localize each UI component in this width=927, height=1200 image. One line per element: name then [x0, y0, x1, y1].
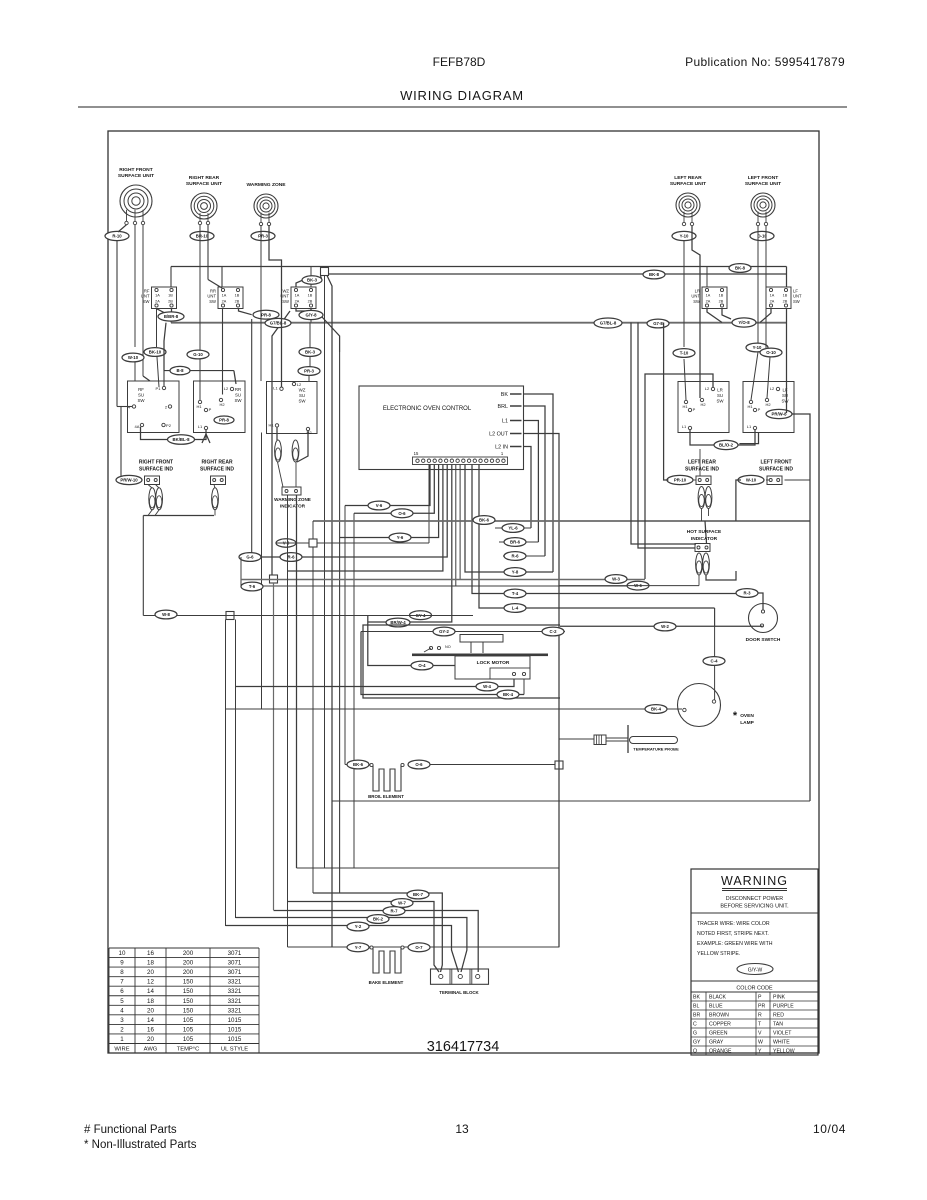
switch LF SU SW	[743, 382, 794, 433]
bus G/BL horizontal	[171, 322, 787, 324]
lamp WZ indicator	[275, 440, 282, 462]
connector GY-2	[433, 627, 455, 636]
wire RF unit sw top feed	[170, 267, 172, 288]
wire RR unit sw top feed	[221, 267, 223, 288]
wire EOC T15 right	[479, 465, 715, 609]
connector BK/BL-8	[168, 435, 195, 445]
connector BK-7	[407, 890, 429, 899]
svg-text:BK-7: BK-7	[413, 892, 424, 897]
indicator LEFT REAR SURFACE IND	[667, 460, 719, 485]
svg-text:8: 8	[120, 969, 124, 976]
bus y901	[288, 902, 440, 973]
wire node A diagonal branch	[327, 276, 332, 948]
svg-text:LAMP: LAMP	[740, 720, 754, 726]
bus y585 HSI	[559, 585, 699, 587]
title underline	[78, 106, 847, 108]
svg-text:14: 14	[147, 988, 154, 995]
wire H2 drop x638 to HSI	[638, 323, 695, 549]
wire EOC L2IN out	[524, 447, 532, 529]
svg-text:LEFT FRONT: LEFT FRONT	[748, 175, 778, 181]
wire BL/O to LF L1	[738, 430, 755, 445]
svg-text:PR-3: PR-3	[258, 234, 268, 239]
svg-text:PR/W-10: PR/W-10	[120, 478, 138, 483]
svg-text:20: 20	[147, 1007, 154, 1014]
connector BK-8 far right	[729, 264, 751, 273]
svg-text:2B: 2B	[719, 300, 724, 304]
connector T-10	[673, 349, 695, 358]
connector O-6 broil	[408, 760, 430, 769]
svg-text:SURFACE UNIT: SURFACE UNIT	[745, 181, 781, 187]
wire EOC T13 right	[465, 465, 553, 573]
svg-text:BEFORE SERVICING UNIT.: BEFORE SERVICING UNIT.	[720, 904, 788, 910]
svg-text:C: C	[693, 1022, 697, 1028]
wire EOC T1 left	[345, 465, 430, 506]
svg-text:RIGHT REAR: RIGHT REAR	[201, 460, 233, 466]
wire RF lead left	[118, 225, 127, 232]
svg-text:10/04: 10/04	[813, 1122, 846, 1136]
svg-text:B-8: B-8	[177, 368, 185, 373]
bus y543 node B	[317, 542, 429, 544]
svg-text:BLUE: BLUE	[709, 1004, 723, 1010]
svg-text:BROIL ELEMENT: BROIL ELEMENT	[368, 794, 404, 799]
bus y893	[313, 893, 442, 972]
svg-text:WIRING DIAGRAM: WIRING DIAGRAM	[400, 88, 524, 103]
svg-text:H2: H2	[765, 402, 771, 407]
wire BK/BL-8 to RR L1	[195, 430, 207, 440]
svg-text:L2: L2	[224, 386, 229, 391]
svg-text:BR-6: BR-6	[510, 540, 521, 545]
svg-text:G: G	[693, 1031, 697, 1037]
svg-text:H1: H1	[196, 404, 202, 409]
svg-text:T-6: T-6	[249, 584, 256, 589]
wire HSI lamp right down	[706, 571, 736, 580]
svg-text:C-4: C-4	[711, 659, 719, 664]
connector W-7	[391, 899, 413, 908]
svg-text:GRAY: GRAY	[709, 1040, 724, 1046]
svg-text:R: R	[758, 1013, 762, 1019]
electronic oven control U1	[359, 386, 524, 470]
svg-text:TEMP°C: TEMP°C	[177, 1047, 200, 1053]
svg-text:Y-7: Y-7	[355, 945, 362, 950]
svg-text:BK-10: BK-10	[149, 350, 162, 355]
svg-text:PR-8: PR-8	[219, 418, 229, 423]
svg-text:SW: SW	[693, 299, 700, 304]
svg-text:1B: 1B	[719, 294, 724, 298]
connector B-8	[170, 366, 190, 374]
svg-text:SURFACE IND: SURFACE IND	[200, 467, 234, 473]
surface unit LEFT REAR	[670, 175, 706, 226]
svg-text:SURFACE UNIT: SURFACE UNIT	[118, 173, 154, 179]
svg-text:SW: SW	[234, 398, 242, 403]
bus y926	[226, 926, 459, 973]
svg-text:RIGHT FRONT: RIGHT FRONT	[119, 167, 152, 173]
svg-text:PURPLE: PURPLE	[773, 1004, 794, 1010]
wire LR lamps to bus	[701, 509, 703, 522]
lamp LR indicator	[698, 487, 705, 509]
svg-text:L2: L2	[705, 386, 710, 391]
svg-text:1A: 1A	[155, 294, 160, 298]
connector BK-10	[144, 348, 166, 357]
svg-text:BROWN: BROWN	[709, 1013, 729, 1019]
wire EOC T2 left	[354, 465, 434, 514]
svg-text:OVEN: OVEN	[740, 713, 754, 719]
svg-text:W-4: W-4	[483, 684, 491, 689]
svg-text:O-4: O-4	[418, 663, 426, 668]
svg-text:T-10: T-10	[680, 351, 689, 356]
svg-text:Y-10: Y-10	[753, 345, 762, 350]
wire RF SU SW bottom link	[141, 427, 169, 440]
wire broil right to node E	[430, 764, 555, 766]
svg-text:200: 200	[183, 969, 194, 976]
wire lock motor BK-4 lead	[523, 679, 525, 695]
svg-text:G/Y-8: G/Y-8	[306, 313, 318, 318]
svg-text:COLOR CODE: COLOR CODE	[736, 986, 773, 992]
svg-text:SURFACE UNIT: SURFACE UNIT	[670, 181, 706, 187]
connector BR-10	[190, 231, 214, 240]
svg-text:3071: 3071	[228, 960, 242, 967]
svg-text:G-6: G-6	[246, 555, 254, 560]
lamp hot surface indicator	[696, 553, 703, 575]
svg-text:3071: 3071	[228, 950, 242, 957]
oven lamp label	[733, 710, 755, 726]
wire EOC T6 left	[368, 465, 452, 623]
svg-text:L2: L2	[297, 382, 302, 387]
connector O-10 b	[760, 348, 782, 357]
svg-text:2A: 2A	[706, 300, 711, 304]
wire EOC L2OUT out	[524, 434, 560, 948]
broil element	[368, 763, 404, 799]
svg-text:105: 105	[183, 1017, 194, 1024]
svg-text:SURFACE IND: SURFACE IND	[685, 467, 719, 473]
bus y918	[236, 918, 467, 973]
wire node C down	[273, 583, 275, 910]
connector G-10	[187, 350, 209, 359]
wire lock motor feed	[368, 616, 455, 666]
wire WZ H2 to lamp	[297, 431, 308, 462]
svg-text:150: 150	[183, 988, 194, 995]
svg-text:W-2: W-2	[661, 624, 669, 629]
svg-text:Y-8: Y-8	[512, 570, 519, 575]
svg-text:EXAMPLE: GREEN WIRE WITH: EXAMPLE: GREEN WIRE WITH	[697, 941, 773, 947]
svg-text:G-10: G-10	[193, 352, 203, 357]
svg-text:WIRE: WIRE	[114, 1047, 129, 1053]
wire LF unit sw bottom	[760, 309, 771, 323]
connector BK-8 right	[643, 270, 665, 279]
svg-text:FEFB78D: FEFB78D	[433, 55, 486, 69]
connector C-4	[703, 657, 725, 666]
oven lamp DS1	[678, 684, 721, 727]
wire LF lead right	[765, 226, 767, 349]
bake element	[369, 946, 404, 985]
connector R-10	[105, 231, 129, 240]
wire left ind vertical	[142, 516, 144, 616]
svg-text:SW: SW	[143, 299, 150, 304]
wire node B down	[312, 547, 314, 893]
connector W-4 lock	[476, 682, 498, 691]
svg-text:R-6: R-6	[288, 555, 296, 560]
svg-text:# Functional Parts: # Functional Parts	[84, 1124, 177, 1136]
wire B/BR-8 to bus	[170, 321, 172, 323]
svg-text:W-3: W-3	[612, 577, 620, 582]
svg-text:6: 6	[120, 988, 124, 995]
svg-text:Y: Y	[758, 1049, 762, 1055]
bus y947 bottom loop	[288, 946, 560, 948]
indicator LEFT FRONT SURFACE IND	[738, 460, 793, 485]
svg-text:SU: SU	[782, 393, 788, 398]
wire RF unit sw bottom fork	[157, 309, 172, 313]
connector L-4	[504, 604, 526, 613]
svg-text:BK-8: BK-8	[735, 266, 746, 271]
connector BK-2	[367, 915, 389, 924]
svg-text:G/Y-W: G/Y-W	[748, 967, 763, 973]
wire WZ box left drop	[261, 433, 263, 710]
bus y708 oven lamp feed	[226, 708, 683, 710]
svg-text:3: 3	[120, 1017, 124, 1024]
svg-text:O-7: O-7	[415, 945, 423, 950]
svg-text:YELLOW: YELLOW	[773, 1049, 795, 1055]
svg-text:2B: 2B	[783, 300, 788, 304]
svg-text:SW: SW	[781, 398, 789, 403]
connector BK-6 broil	[347, 760, 369, 769]
svg-text:*: *	[733, 710, 738, 722]
svg-text:W-10: W-10	[746, 478, 757, 483]
svg-text:R-3: R-3	[744, 591, 752, 596]
svg-text:NOTED FIRST, STRIPE NEXT.: NOTED FIRST, STRIPE NEXT.	[697, 931, 769, 937]
wire R-6 stub	[503, 555, 545, 557]
wire EOC T4 left	[288, 465, 443, 572]
svg-text:WZ: WZ	[299, 388, 306, 393]
svg-text:18: 18	[147, 960, 154, 967]
switch WZ SU SW	[267, 382, 318, 436]
diagram border	[108, 131, 819, 1053]
svg-text:316417734: 316417734	[427, 1039, 500, 1055]
wire WZ H1 to lamp	[276, 427, 278, 440]
svg-text:L1: L1	[502, 418, 508, 424]
wire WZ top-left to node A	[296, 280, 303, 287]
svg-text:G7-8: G7-8	[653, 321, 663, 326]
wire broil left	[345, 764, 347, 766]
connector PR/W-8 at LF SU SW	[766, 409, 792, 418]
wire 4 to RF indicator	[120, 407, 122, 477]
wire EOC T5 left	[241, 465, 447, 558]
svg-text:P2: P2	[166, 423, 172, 428]
connector O-7 bake	[408, 943, 430, 952]
wire R-3 to door switch	[758, 593, 763, 610]
svg-text:L1: L1	[747, 424, 752, 429]
wire G/Y oval down	[310, 320, 312, 323]
svg-text:O-10: O-10	[766, 350, 776, 355]
svg-text:TEMPERATURE PROBE: TEMPERATURE PROBE	[633, 747, 679, 752]
wire door return drop	[714, 608, 716, 626]
svg-text:TAN: TAN	[773, 1022, 783, 1028]
surface unit RIGHT FRONT	[118, 167, 154, 225]
svg-text:1015: 1015	[228, 1036, 242, 1043]
svg-text:Y-10: Y-10	[680, 234, 689, 239]
svg-text:2B: 2B	[235, 300, 240, 304]
svg-text:LEFT REAR: LEFT REAR	[688, 460, 716, 466]
svg-text:BK: BK	[693, 995, 700, 1001]
wire LR H1 feed	[683, 241, 685, 348]
svg-text:L1: L1	[273, 386, 278, 391]
wire LR lead right	[692, 226, 700, 399]
wire PR/W-8 to border riser	[793, 414, 811, 801]
junction node D	[226, 612, 234, 620]
wire temp probe feed	[559, 738, 594, 740]
svg-text:SW: SW	[298, 398, 306, 403]
svg-text:P: P	[693, 407, 696, 412]
svg-text:200: 200	[183, 950, 194, 957]
svg-text:GY-2: GY-2	[439, 629, 449, 634]
connector Y-10	[672, 231, 696, 240]
EOC terminal strip	[413, 457, 508, 465]
svg-text:P1: P1	[156, 386, 162, 391]
svg-text:INDICATOR: INDICATOR	[691, 536, 718, 542]
svg-text:BLACK: BLACK	[709, 995, 727, 1001]
svg-text:Y/O-8: Y/O-8	[738, 320, 750, 325]
svg-text:3321: 3321	[228, 988, 242, 995]
wire EOC T8 down	[459, 465, 461, 580]
wire EOC BRL out	[524, 406, 546, 556]
wire G/Y-8 diag to x340	[322, 317, 340, 352]
svg-text:H1: H1	[747, 404, 753, 409]
svg-text:BK-2: BK-2	[373, 917, 384, 922]
svg-text:PR/W-8: PR/W-8	[772, 412, 788, 417]
junction node C	[270, 575, 278, 583]
connector V-8	[276, 539, 296, 547]
connector GY-4	[410, 611, 432, 620]
connector R-6 left	[280, 553, 302, 562]
svg-text:1: 1	[501, 451, 504, 456]
svg-text:COPPER: COPPER	[709, 1022, 731, 1028]
svg-text:C-2: C-2	[550, 629, 558, 634]
wire LR unit sw top feed	[706, 267, 708, 288]
wire RR lead right	[207, 225, 209, 280]
svg-text:DISCONNECT POWER: DISCONNECT POWER	[726, 896, 784, 902]
svg-text:L2: L2	[770, 386, 775, 391]
svg-text:BR/W-4: BR/W-4	[390, 620, 406, 625]
svg-text:BK-4: BK-4	[503, 692, 514, 697]
svg-text:H2: H2	[306, 430, 312, 435]
wire RR unit sw bottom to H2	[222, 309, 224, 395]
svg-text:16: 16	[147, 1026, 154, 1033]
svg-text:LR: LR	[717, 388, 723, 393]
svg-text:1015: 1015	[228, 1017, 242, 1024]
svg-text:14: 14	[147, 1017, 154, 1024]
svg-text:AWG: AWG	[144, 1047, 158, 1053]
lamp RR indicator	[212, 488, 219, 510]
svg-text:L1: L1	[682, 424, 687, 429]
svg-text:2A: 2A	[295, 300, 300, 304]
connector W-8	[155, 610, 177, 619]
svg-text:PINK: PINK	[773, 995, 786, 1001]
svg-text:1: 1	[120, 1036, 124, 1043]
svg-text:SW: SW	[282, 299, 289, 304]
wire RR unit sw bottom fork	[239, 309, 252, 315]
svg-text:DOOR SWITCH: DOOR SWITCH	[746, 637, 781, 643]
wire RF lead right	[142, 225, 144, 376]
wire PR-8 drop to G-6	[251, 319, 253, 553]
svg-text:GREEN: GREEN	[709, 1031, 728, 1037]
svg-text:P: P	[758, 995, 762, 1001]
switch RF UNIT SW	[141, 287, 177, 309]
svg-text:INDICATOR: INDICATOR	[280, 504, 306, 509]
svg-text:W-8: W-8	[162, 612, 170, 617]
switch LR SU SW	[678, 382, 729, 433]
lock assembly boundary	[363, 625, 560, 698]
bus grey y520	[313, 520, 810, 522]
connector R-3	[736, 589, 758, 598]
wire LF unit sw top feed	[786, 267, 788, 288]
warming zone indicator	[274, 487, 311, 509]
svg-text:RF: RF	[138, 387, 144, 392]
svg-text:2B: 2B	[168, 300, 173, 304]
connector G/Y-8	[299, 310, 323, 319]
wire y579 riser x645	[645, 374, 713, 579]
svg-text:V: V	[758, 1031, 762, 1037]
bus y910	[274, 911, 479, 973]
wire RF unit sw lower-left lead	[156, 309, 158, 347]
svg-text:Y-6: Y-6	[397, 535, 404, 540]
connector B/BR-8	[158, 312, 184, 321]
svg-text:13: 13	[455, 1122, 469, 1136]
wire RR ind lamp leads	[214, 485, 215, 489]
svg-text:GY: GY	[693, 1040, 701, 1046]
wire H2 drop x663 to LR ind	[664, 323, 669, 481]
svg-text:SW: SW	[793, 299, 800, 304]
svg-text:SW: SW	[716, 398, 724, 403]
lock motor assembly	[412, 635, 548, 680]
svg-text:BK-6: BK-6	[479, 518, 490, 523]
connector Y-7 bake	[347, 943, 369, 952]
svg-text:RR: RR	[235, 387, 241, 392]
svg-text:G7/BL-8: G7/BL-8	[270, 321, 287, 326]
svg-text:2A: 2A	[770, 300, 775, 304]
svg-text:WARMING ZONE: WARMING ZONE	[274, 497, 311, 502]
indicator RIGHT REAR SURFACE IND	[200, 460, 234, 485]
svg-text:1B: 1B	[308, 294, 313, 298]
wire WZ lead right	[269, 225, 282, 387]
wire EOC T7 down	[455, 465, 457, 587]
svg-text:1A: 1A	[295, 294, 300, 298]
svg-text:4: 4	[120, 1007, 124, 1014]
svg-text:SURFACE IND: SURFACE IND	[759, 467, 793, 473]
svg-text:H1: H1	[682, 404, 688, 409]
svg-text:PR-8: PR-8	[261, 312, 271, 317]
connector BK-6 on bus	[473, 516, 495, 525]
svg-text:W-10: W-10	[128, 355, 139, 360]
bus y579 node C	[241, 579, 645, 581]
svg-text:200: 200	[183, 960, 194, 967]
warning box	[691, 869, 818, 1055]
surface unit RIGHT REAR	[186, 175, 222, 225]
connector BK-3	[299, 348, 321, 357]
wire gauge table	[109, 948, 259, 1053]
wire RR lead left	[199, 225, 201, 350]
svg-text:1B: 1B	[168, 294, 173, 298]
svg-text:H2: H2	[700, 402, 706, 407]
svg-text:BAKE ELEMENT: BAKE ELEMENT	[369, 980, 404, 985]
svg-text:WARMING ZONE: WARMING ZONE	[246, 182, 286, 188]
terminal block TB1	[431, 969, 489, 995]
wire link P1 row	[164, 323, 166, 371]
svg-text:L2 OUT: L2 OUT	[489, 431, 509, 437]
svg-text:10: 10	[119, 950, 126, 957]
svg-text:1B: 1B	[783, 294, 788, 298]
svg-text:5: 5	[120, 998, 124, 1005]
connector Y-10 b	[746, 343, 768, 352]
svg-text:PR-3: PR-3	[304, 369, 314, 374]
wire LR L1 fork	[690, 430, 714, 445]
